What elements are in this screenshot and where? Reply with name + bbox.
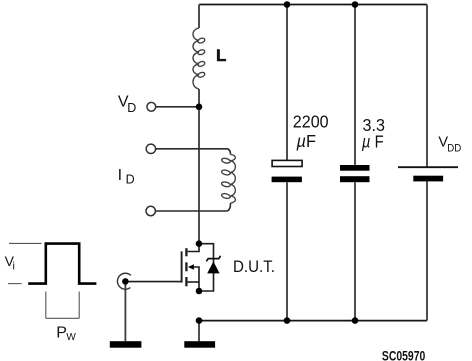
svg-text:µ F: µ F: [361, 131, 384, 151]
svg-text:i: i: [13, 261, 15, 273]
svg-text:µF: µF: [296, 131, 316, 151]
svg-text:D.U.T.: D.U.T.: [233, 258, 275, 276]
svg-text:2200: 2200: [293, 112, 329, 132]
svg-text:D: D: [127, 101, 136, 115]
svg-text:P: P: [56, 324, 67, 341]
svg-text:D: D: [126, 173, 135, 187]
svg-text:I: I: [118, 167, 122, 184]
svg-text:SC05970: SC05970: [382, 347, 426, 361]
svg-text:L: L: [216, 46, 226, 65]
svg-text:W: W: [66, 332, 76, 343]
svg-text:DD: DD: [447, 142, 461, 154]
